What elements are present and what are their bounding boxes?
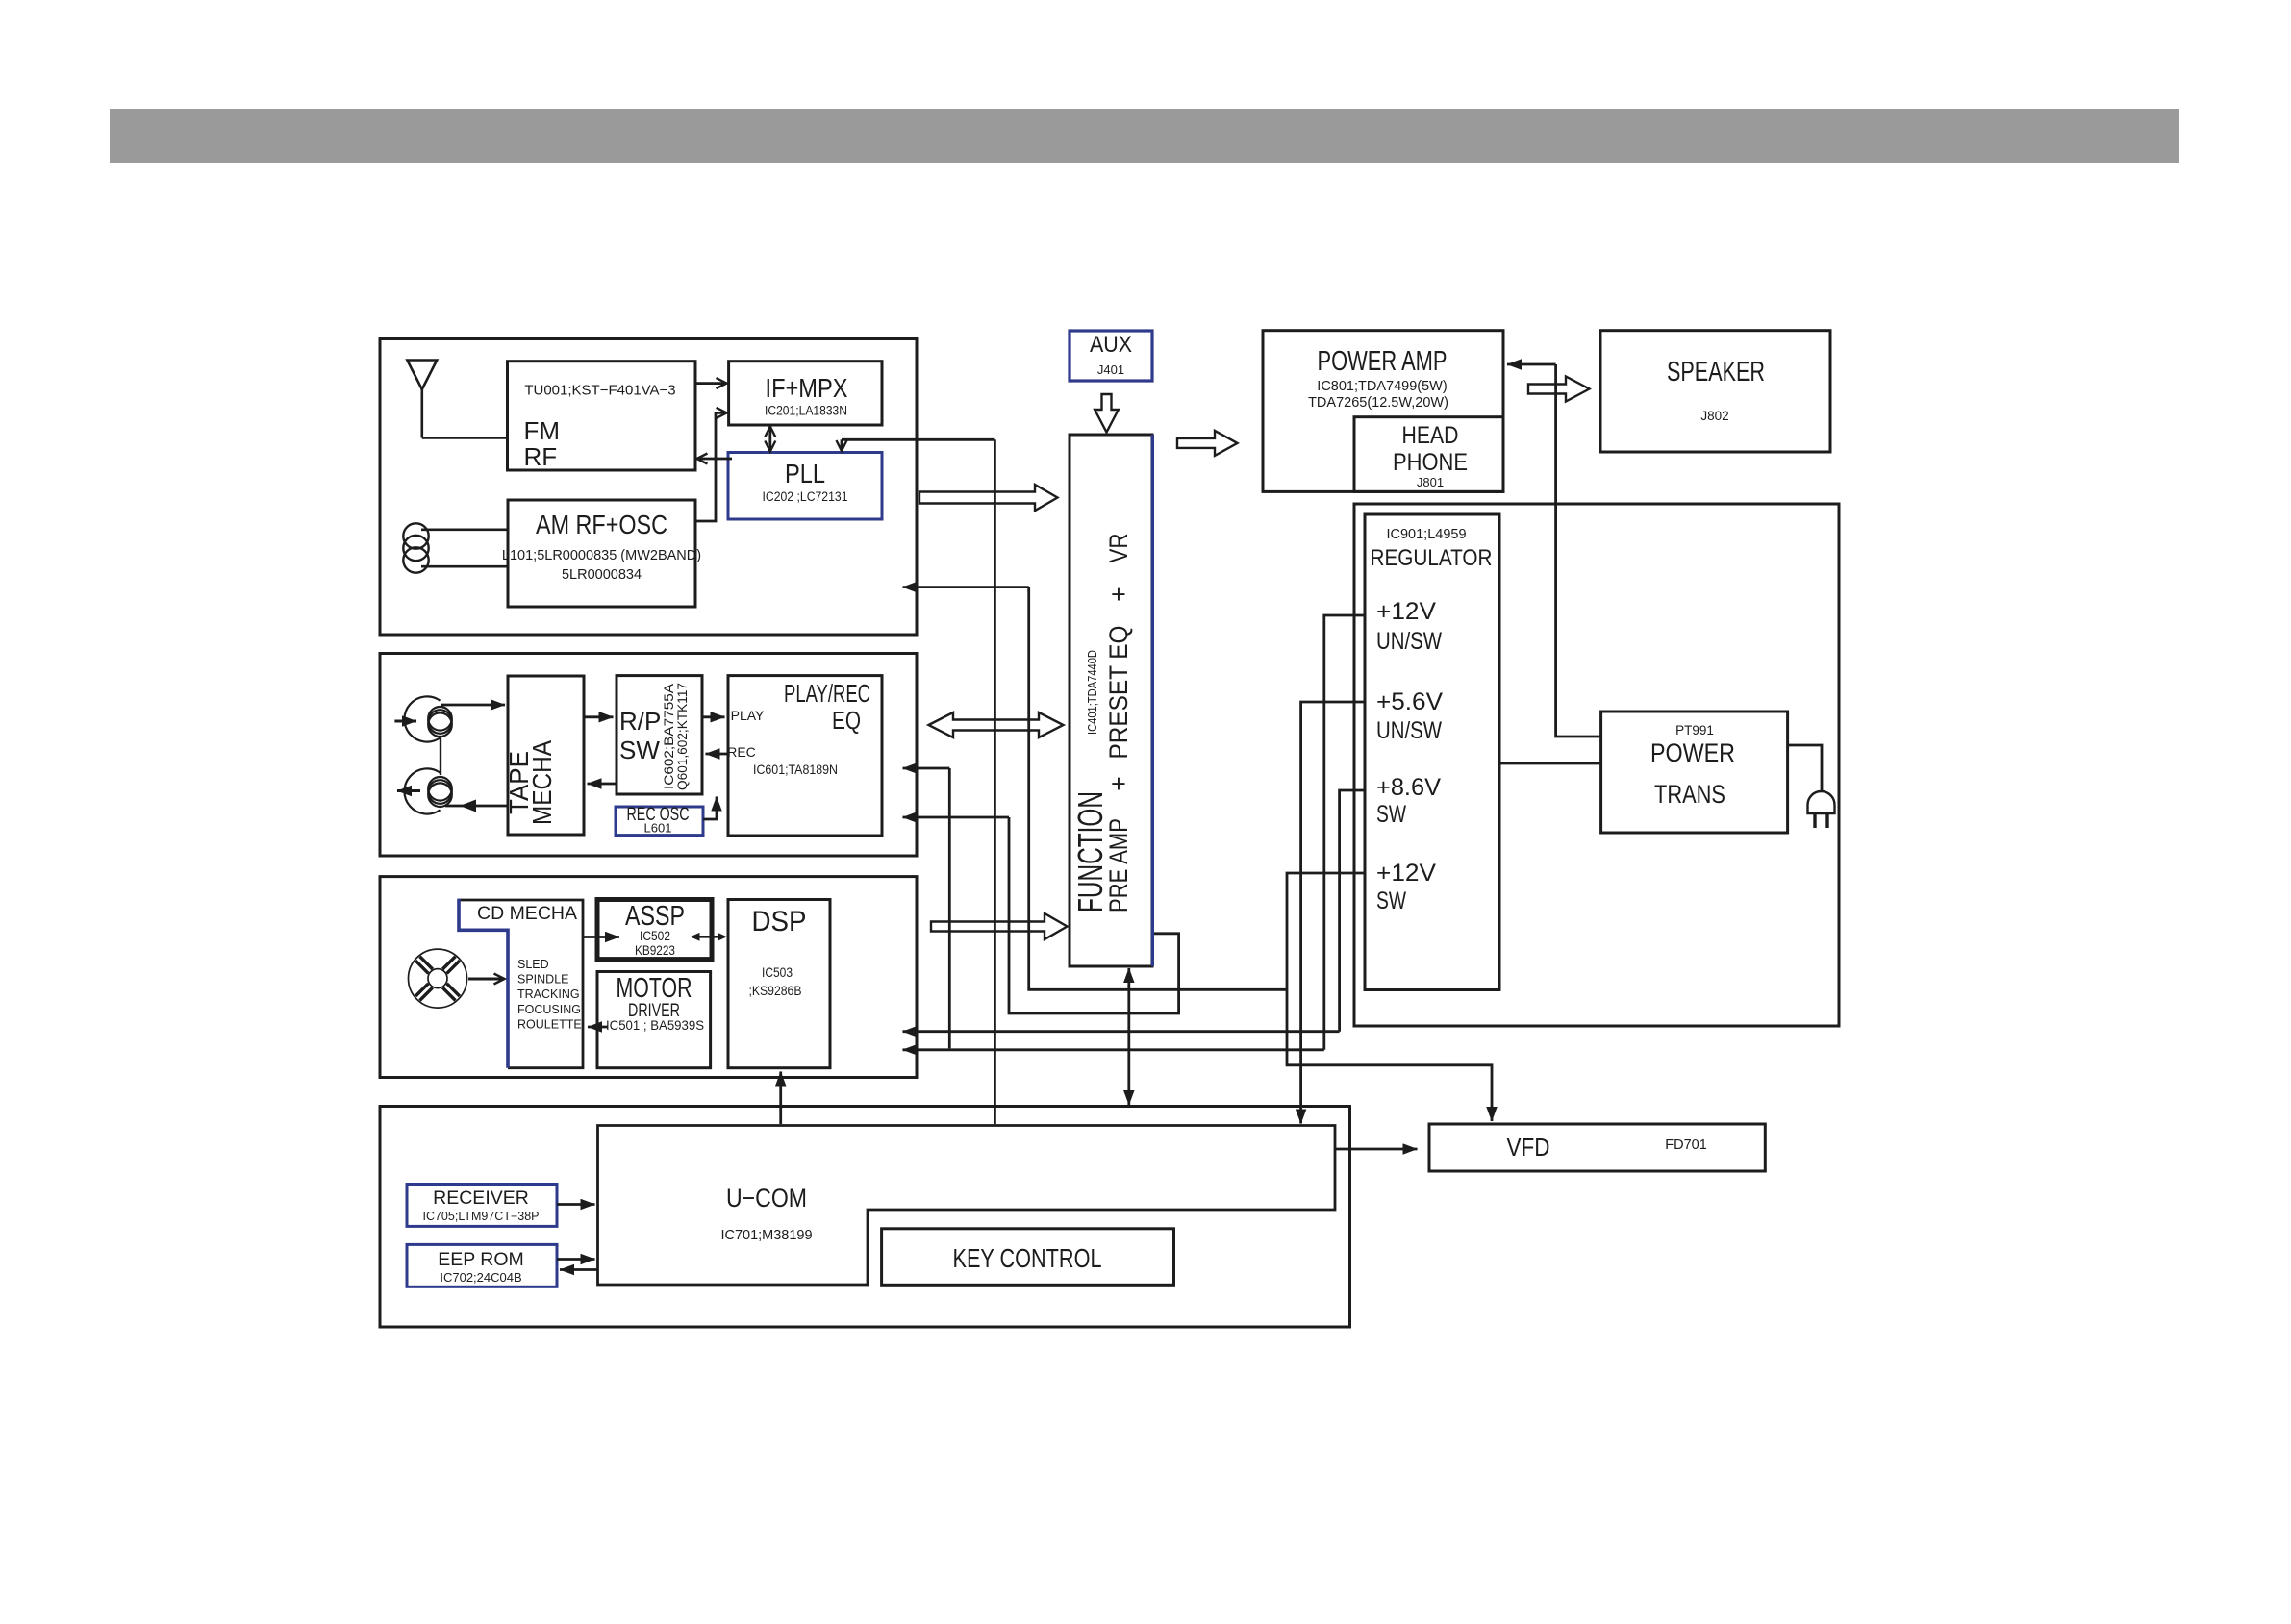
svg-text:AUX: AUX <box>1090 332 1132 358</box>
svg-text:AM RF+OSC: AM RF+OSC <box>536 510 667 539</box>
svg-text:FOCUSING: FOCUSING <box>517 1003 581 1016</box>
svg-text:REGULATOR: REGULATOR <box>1371 545 1493 571</box>
svg-text:PLAY: PLAY <box>731 708 765 723</box>
svg-text:J802: J802 <box>1700 409 1728 423</box>
svg-text:PRESET EQ: PRESET EQ <box>1104 626 1133 760</box>
svg-text:CD MECHA: CD MECHA <box>477 903 577 924</box>
svg-text:UN/SW: UN/SW <box>1376 628 1442 655</box>
svg-text:VR: VR <box>1104 534 1133 563</box>
svg-text:RECEIVER: RECEIVER <box>433 1187 529 1209</box>
svg-text:SPEAKER: SPEAKER <box>1667 357 1765 387</box>
svg-text:FD701: FD701 <box>1665 1137 1707 1153</box>
svg-text:PLAY/REC: PLAY/REC <box>784 679 870 708</box>
svg-text:+5.6V: +5.6V <box>1376 688 1443 715</box>
svg-text:+8.6V: +8.6V <box>1376 774 1441 801</box>
svg-text:SPINDLE: SPINDLE <box>517 973 569 987</box>
svg-text:PRE AMP: PRE AMP <box>1104 818 1133 912</box>
svg-text:RF: RF <box>524 442 558 471</box>
svg-text:IC701;M38199: IC701;M38199 <box>720 1228 812 1243</box>
svg-text:SW: SW <box>619 736 660 764</box>
svg-text:TRACKING: TRACKING <box>517 987 580 1001</box>
svg-text:POWER AMP: POWER AMP <box>1318 346 1448 377</box>
svg-text:+12V: +12V <box>1376 598 1436 625</box>
svg-text:TRANS: TRANS <box>1654 780 1725 809</box>
svg-text:L601: L601 <box>644 821 672 836</box>
svg-text:IC901;L4959: IC901;L4959 <box>1386 527 1466 542</box>
svg-text:SW: SW <box>1376 887 1406 914</box>
svg-text:R/P: R/P <box>619 707 661 736</box>
svg-text:HEAD: HEAD <box>1402 422 1459 449</box>
svg-text:VFD: VFD <box>1507 1133 1550 1162</box>
svg-text:FM: FM <box>524 416 561 445</box>
svg-text:PLL: PLL <box>785 459 825 488</box>
svg-text:+: + <box>1104 587 1133 601</box>
svg-text:IF+MPX: IF+MPX <box>766 373 848 403</box>
svg-text:IC601;TA8189N: IC601;TA8189N <box>753 762 838 777</box>
svg-text:IC602;BA7755A: IC602;BA7755A <box>662 684 676 789</box>
svg-text:POWER: POWER <box>1650 738 1735 767</box>
svg-text:MECHA: MECHA <box>527 740 557 825</box>
svg-text:IC702;24C04B: IC702;24C04B <box>440 1270 521 1285</box>
svg-text:KEY CONTROL: KEY CONTROL <box>953 1243 1102 1273</box>
svg-text:IC801;TDA7499(5W): IC801;TDA7499(5W) <box>1317 379 1447 394</box>
svg-text:TU001;KST−F401VA−3: TU001;KST−F401VA−3 <box>524 382 675 398</box>
svg-text:PT991: PT991 <box>1675 723 1714 737</box>
svg-text:IC202 ;LC72131: IC202 ;LC72131 <box>763 489 848 504</box>
svg-text:U−COM: U−COM <box>726 1184 807 1212</box>
svg-text:IC201;LA1833N: IC201;LA1833N <box>765 404 847 418</box>
svg-text:J801: J801 <box>1417 475 1444 489</box>
svg-text:IC705;LTM97CT−38P: IC705;LTM97CT−38P <box>422 1210 539 1223</box>
svg-text:DSP: DSP <box>752 906 807 937</box>
svg-text:EEP ROM: EEP ROM <box>438 1249 524 1270</box>
svg-text:SW: SW <box>1376 801 1406 828</box>
svg-text:5LR0000834: 5LR0000834 <box>562 567 642 583</box>
svg-text:SLED: SLED <box>517 958 549 971</box>
svg-text:IC401;TDA7440D: IC401;TDA7440D <box>1085 650 1099 735</box>
svg-text:EQ: EQ <box>832 706 861 735</box>
svg-text:TDA7265(12.5W,20W): TDA7265(12.5W,20W) <box>1308 395 1448 411</box>
svg-text:IC503: IC503 <box>762 964 793 980</box>
svg-text:+12V: +12V <box>1376 860 1436 887</box>
svg-text:PHONE: PHONE <box>1393 449 1468 476</box>
svg-text:IC502: IC502 <box>640 928 670 943</box>
svg-text:IC501 ; BA5939S: IC501 ; BA5939S <box>606 1017 704 1033</box>
svg-text:KB9223: KB9223 <box>635 942 675 958</box>
svg-text:Q601,602;KTK117: Q601,602;KTK117 <box>675 683 690 790</box>
svg-text:;KS9286B: ;KS9286B <box>749 983 802 998</box>
svg-text:J401: J401 <box>1097 362 1124 377</box>
svg-text:ROULETTE: ROULETTE <box>517 1017 582 1031</box>
svg-text:UN/SW: UN/SW <box>1376 717 1442 744</box>
svg-text:REC: REC <box>727 744 756 760</box>
svg-text:L101;5LR0000835 (MW2BAND): L101;5LR0000835 (MW2BAND) <box>502 548 701 563</box>
svg-text:+: + <box>1104 776 1133 790</box>
